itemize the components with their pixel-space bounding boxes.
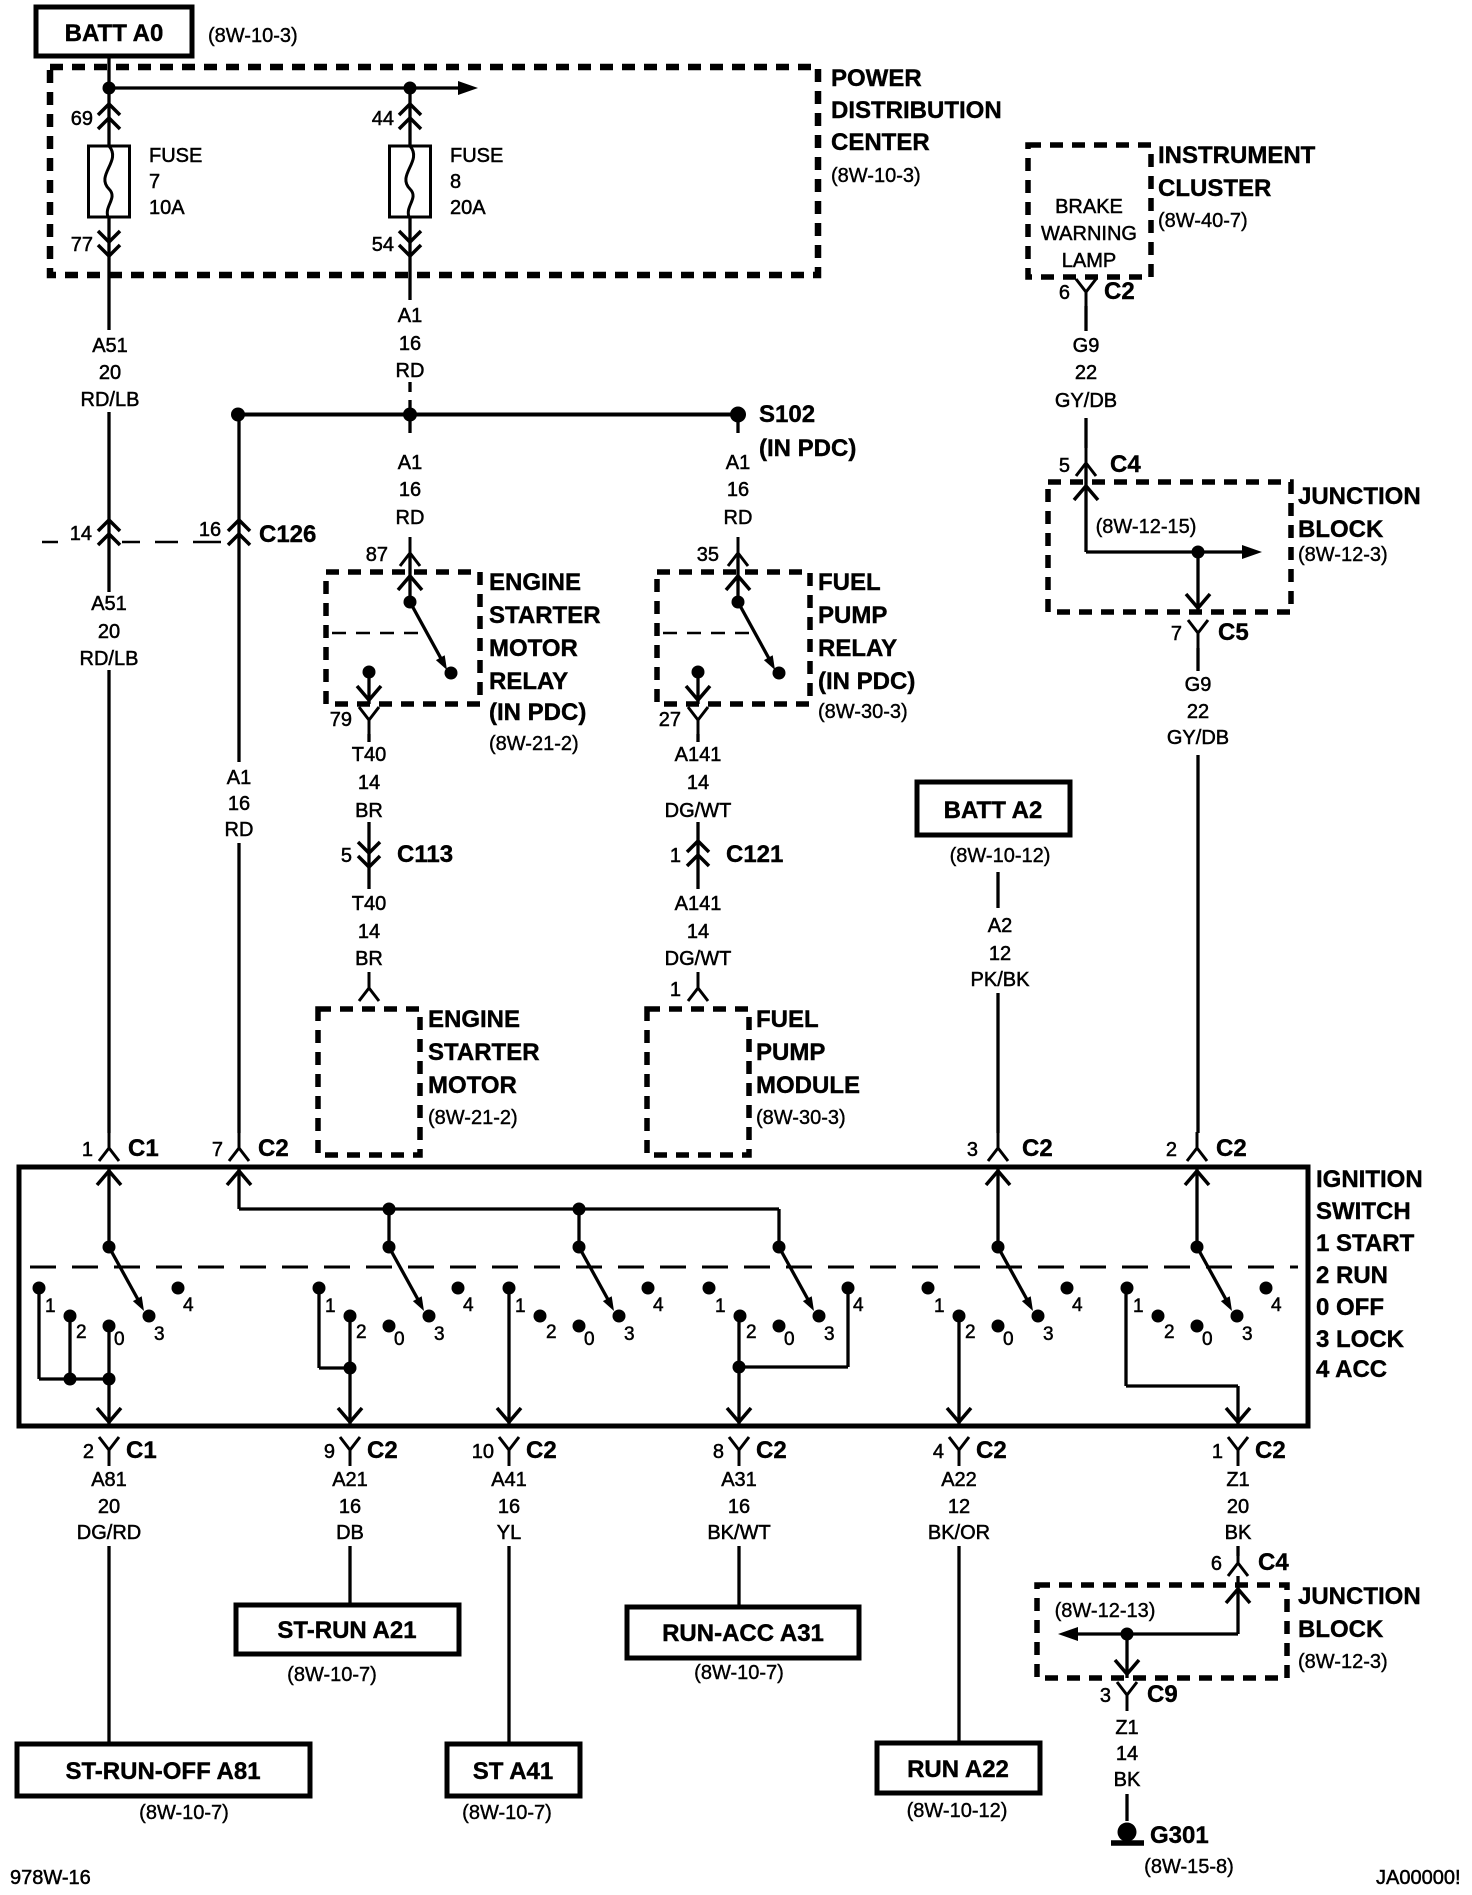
svg-text:BK/WT: BK/WT [707,1522,770,1544]
svg-text:22: 22 [1187,701,1209,723]
junction block lower entry arrow [1226,1589,1250,1603]
svg-text:0 OFF: 0 OFF [1316,1294,1384,1321]
svg-text:22: 22 [1075,362,1097,384]
wire bus drops [387,1209,390,1247]
wire pole 5 output net [957,1316,960,1426]
svg-text:A141: A141 [675,893,722,915]
svg-text:BATT A2: BATT A2 [944,797,1043,824]
svg-text:FUEL: FUEL [818,569,881,596]
svg-text:3: 3 [434,1324,445,1345]
fuel pump relay entry arrow [726,576,750,590]
fuse 7 10A [89,146,130,217]
svg-text:8: 8 [450,171,461,193]
engine starter motor box [318,1009,420,1155]
svg-text:FUEL: FUEL [756,1006,819,1033]
svg-text:C1: C1 [126,1437,157,1464]
svg-text:C4: C4 [1258,1549,1289,1576]
svg-text:3 LOCK: 3 LOCK [1316,1326,1405,1353]
svg-text:10A: 10A [149,197,185,219]
svg-text:POWER: POWER [831,65,922,92]
svg-text:77: 77 [71,234,93,256]
switch pole 1 position contacts [33,1282,46,1295]
node ST-RUN-OFF A81 box [17,1744,310,1796]
svg-text:16: 16 [399,333,421,355]
switch pole 3 position contacts [503,1282,516,1295]
switch pole 4 position contacts [703,1282,716,1295]
svg-text:16: 16 [199,519,221,541]
wire dash below S102 [736,420,739,433]
svg-text:G301: G301 [1150,1822,1209,1849]
wire entry pole 5 [986,1171,1010,1185]
svg-text:16: 16 [399,479,421,501]
svg-text:RUN-ACC A31: RUN-ACC A31 [662,1620,824,1647]
svg-text:C2: C2 [1104,278,1135,305]
wire A1 16 RD from C126 to ignition switch pin 7 C2 [237,414,240,762]
svg-text:BR: BR [355,948,383,970]
wire A22 to RUN [957,1546,960,1743]
wire Z1 to ground [1125,1794,1128,1821]
wire fuel relay coil to pivot [736,553,739,602]
wire T40 14 BR upper [367,734,370,742]
power distribution center box [50,67,818,275]
svg-text:3: 3 [154,1324,165,1345]
svg-text:RUN A22: RUN A22 [907,1756,1009,1783]
svg-text:WARNING: WARNING [1041,223,1137,245]
svg-text:S102: S102 [759,401,815,428]
svg-text:A1: A1 [227,767,251,789]
node fuel relay contact [773,667,786,680]
svg-text:C2: C2 [367,1437,398,1464]
junction block entry arrow [1074,486,1098,500]
wire relay output [367,672,370,704]
svg-text:BLOCK: BLOCK [1298,516,1384,543]
wire PDC internal bus with arrow [109,86,462,89]
wire pole 6 output net [1124,1288,1127,1386]
svg-text:BRAKE: BRAKE [1055,196,1123,218]
svg-text:7: 7 [1171,623,1182,645]
svg-text:FUSE: FUSE [450,145,503,167]
wire Z1 to C4 [1236,1546,1239,1556]
svg-text:4: 4 [1072,1295,1083,1316]
starter relay entry arrow [398,576,422,590]
svg-text:0: 0 [1202,1329,1213,1350]
node relay output contact [363,666,376,679]
svg-text:(8W-10-7): (8W-10-7) [139,1802,229,1824]
svg-text:14: 14 [358,921,380,943]
svg-text:C121: C121 [726,841,783,868]
svg-text:5: 5 [341,845,352,867]
switch pole 6 position contacts [1121,1282,1134,1295]
fuel relay internal dashed line [663,632,752,635]
svg-text:16: 16 [339,1496,361,1518]
svg-text:35: 35 [697,544,719,566]
svg-text:C126: C126 [259,521,316,548]
svg-text:4: 4 [183,1295,194,1316]
svg-text:ST A41: ST A41 [473,1758,553,1785]
svg-text:1: 1 [670,845,681,867]
svg-text:JA00000!: JA00000! [1376,1867,1461,1889]
svg-text:Z1: Z1 [1226,1469,1249,1491]
wire fuel relay output [696,672,699,704]
svg-text:(8W-10-3): (8W-10-3) [208,25,298,47]
svg-text:(8W-12-15): (8W-12-15) [1096,516,1197,538]
switch pole 1 arm [109,1247,141,1305]
svg-text:C4: C4 [1110,451,1141,478]
connector at engine starter motor [359,972,379,1001]
wire A2 to ignition switch pin 3 C2 [996,993,999,1133]
svg-text:3: 3 [1043,1324,1054,1345]
svg-text:T40: T40 [352,744,386,766]
wire pole 3 output net [507,1288,510,1426]
switch pole 4 pivot [773,1241,786,1254]
svg-text:(8W-12-3): (8W-12-3) [1298,1651,1388,1673]
svg-text:12: 12 [989,943,1011,965]
node fuel relay pivot [732,596,745,609]
wire A51 to ignition switch pin 1 C1 [107,670,110,1133]
svg-text:RELAY: RELAY [818,635,897,662]
svg-text:2: 2 [76,1322,87,1343]
svg-text:6: 6 [1059,282,1070,304]
svg-text:20: 20 [99,362,121,384]
svg-text:16: 16 [498,1496,520,1518]
wire entry pole 6 [1185,1171,1209,1185]
svg-text:RD: RD [396,507,425,529]
svg-text:ENGINE: ENGINE [489,569,581,596]
svg-text:(8W-10-12): (8W-10-12) [907,1800,1008,1822]
svg-text:(IN PDC): (IN PDC) [818,668,915,695]
svg-text:(8W-40-7): (8W-40-7) [1158,210,1248,232]
fuel pump module box [647,1009,749,1155]
node junction block tap [1192,546,1205,559]
svg-text:RELAY: RELAY [489,668,568,695]
svg-text:(8W-30-3): (8W-30-3) [756,1107,846,1129]
wire entry pole 2 to bus [227,1171,251,1185]
svg-text:C1: C1 [128,1135,159,1162]
svg-text:1: 1 [515,1296,526,1317]
svg-text:ENGINE: ENGINE [428,1006,520,1033]
svg-text:A141: A141 [675,744,722,766]
svg-text:A41: A41 [491,1469,527,1491]
svg-text:2: 2 [356,1322,367,1343]
svg-text:0: 0 [1003,1329,1014,1350]
fuel relay switch arm [738,602,772,664]
svg-text:1: 1 [670,979,681,1001]
svg-text:14: 14 [358,772,380,794]
svg-text:SWITCH: SWITCH [1316,1198,1411,1225]
ignition switch box [19,1167,1308,1426]
svg-text:(8W-12-13): (8W-12-13) [1055,1600,1156,1622]
svg-text:44: 44 [372,108,394,130]
wire fuse 7 output [107,217,110,330]
svg-text:A21: A21 [332,1469,368,1491]
fuel pump relay box [657,572,810,704]
svg-text:1: 1 [325,1296,336,1317]
node relay contact [445,667,458,680]
svg-text:(8W-10-7): (8W-10-7) [462,1802,552,1824]
svg-text:0: 0 [114,1329,125,1350]
wire ignition internal bus [239,1207,779,1210]
svg-text:ST-RUN A21: ST-RUN A21 [277,1617,416,1644]
svg-text:Z1: Z1 [1115,1717,1138,1739]
wire G9 22 GY/DB lower [1196,648,1199,671]
svg-text:RD: RD [724,507,753,529]
node S102 [730,407,746,423]
svg-text:BATT A0: BATT A0 [65,20,164,47]
svg-text:(8W-12-3): (8W-12-3) [1298,544,1388,566]
wire relay coil to pivot [408,553,411,602]
svg-text:STARTER: STARTER [489,602,601,629]
node fuel relay output contact [692,666,705,679]
svg-text:DG/WT: DG/WT [665,800,732,822]
svg-text:4: 4 [463,1295,474,1316]
svg-text:MOTOR: MOTOR [489,635,578,662]
svg-text:2: 2 [746,1322,757,1343]
node RUN-ACC A31 box [627,1607,859,1658]
svg-text:ST-RUN-OFF A81: ST-RUN-OFF A81 [65,1758,260,1785]
svg-text:16: 16 [728,1496,750,1518]
svg-text:1: 1 [715,1296,726,1317]
svg-text:C2: C2 [1255,1437,1286,1464]
connector C126 dashed tie line [122,541,140,544]
svg-text:7: 7 [149,171,160,193]
svg-text:1: 1 [1133,1296,1144,1317]
wire dash below bus center [408,420,411,433]
svg-text:3: 3 [1100,1685,1111,1707]
node junction at fuse 8 [404,82,417,95]
svg-text:G9: G9 [1185,674,1212,696]
wire into fuse 8 pin 44 [408,88,411,146]
svg-text:2: 2 [965,1322,976,1343]
node bus tap pole 2b [383,1203,396,1216]
svg-text:A51: A51 [91,593,127,615]
svg-text:A81: A81 [91,1469,127,1491]
svg-text:C2: C2 [756,1437,787,1464]
svg-text:C113: C113 [397,841,453,868]
svg-text:4: 4 [653,1295,664,1316]
wire fuse 8 output A1 [408,217,411,300]
switch pole 3 arm [579,1247,611,1305]
svg-text:A1: A1 [398,305,422,327]
svg-text:A31: A31 [721,1469,757,1491]
svg-text:(8W-10-12): (8W-10-12) [950,845,1051,867]
node bus center tap [403,408,417,422]
svg-text:9: 9 [324,1441,335,1463]
node lower junction tap [1121,1628,1134,1641]
svg-text:14: 14 [70,523,92,545]
svg-text:6: 6 [1211,1553,1222,1575]
svg-text:7: 7 [212,1139,223,1161]
svg-text:4: 4 [1271,1295,1282,1316]
wire BATT A0 to PDC node [107,56,110,88]
svg-text:C2: C2 [258,1135,289,1162]
svg-text:0: 0 [784,1329,795,1350]
switch pole 5 arm [998,1247,1030,1305]
svg-text:14: 14 [1116,1743,1138,1765]
svg-text:3: 3 [824,1324,835,1345]
switch pole 1 pivot [103,1241,116,1254]
node bus left end [231,408,245,422]
svg-text:27: 27 [659,709,681,731]
svg-text:0: 0 [584,1329,595,1350]
switch pole 5 position contacts [922,1282,935,1295]
svg-text:(8W-30-3): (8W-30-3) [818,701,908,723]
svg-text:14: 14 [687,921,709,943]
svg-text:A2: A2 [988,915,1012,937]
svg-text:3: 3 [1242,1324,1253,1345]
node bus tap pole 3 [573,1203,586,1216]
svg-text:3: 3 [967,1139,978,1161]
svg-text:RD: RD [396,360,425,382]
svg-text:20: 20 [1227,1496,1249,1518]
svg-text:RD: RD [225,819,254,841]
svg-text:4: 4 [933,1441,944,1463]
svg-text:BR: BR [355,800,383,822]
switch pole 3 pivot [573,1241,586,1254]
svg-text:T40: T40 [352,893,386,915]
svg-text:1: 1 [45,1296,56,1317]
svg-text:FUSE: FUSE [149,145,202,167]
svg-text:0: 0 [394,1329,405,1350]
svg-text:20A: 20A [450,197,486,219]
svg-text:(8W-21-2): (8W-21-2) [489,733,579,755]
wire pole 2 output net [317,1288,320,1368]
svg-text:A22: A22 [941,1469,977,1491]
svg-text:A51: A51 [92,335,128,357]
svg-text:2: 2 [1166,1139,1177,1161]
node junction at fuse 7 [103,82,116,95]
svg-text:(8W-15-8): (8W-15-8) [1144,1856,1234,1878]
svg-text:1 START: 1 START [1316,1230,1415,1257]
svg-text:LAMP: LAMP [1062,250,1116,272]
wire A31 to RUN-ACC [737,1546,740,1607]
wire inside lower junction block [1236,1576,1239,1634]
svg-text:RD/LB: RD/LB [80,648,139,670]
svg-text:PUMP: PUMP [756,1039,825,1066]
svg-text:69: 69 [71,108,93,130]
svg-text:54: 54 [372,234,394,256]
svg-text:10: 10 [472,1441,494,1463]
svg-text:20: 20 [98,1496,120,1518]
svg-text:4 ACC: 4 ACC [1316,1356,1387,1383]
svg-text:1: 1 [82,1139,93,1161]
ignition internal dashed line [30,1266,1298,1269]
svg-text:2 RUN: 2 RUN [1316,1262,1388,1289]
svg-text:A1: A1 [726,452,750,474]
wire A51 from label to C126 [107,412,110,592]
engine starter motor relay box [326,572,480,704]
switch pole 2 position contacts [313,1282,326,1295]
svg-text:STARTER: STARTER [428,1039,540,1066]
svg-text:4: 4 [853,1295,864,1316]
svg-text:GY/DB: GY/DB [1167,727,1229,749]
svg-text:12: 12 [948,1496,970,1518]
svg-text:PK/BK: PK/BK [971,969,1031,991]
svg-text:C2: C2 [976,1437,1007,1464]
svg-text:C5: C5 [1218,619,1249,646]
wire splice bus S102 [238,413,738,417]
svg-text:1: 1 [934,1296,945,1317]
svg-text:BK/OR: BK/OR [928,1522,990,1544]
node ST A41 box [447,1744,580,1796]
svg-text:C9: C9 [1147,1681,1178,1708]
svg-text:14: 14 [687,772,709,794]
wire BATT A2 stub [996,872,999,908]
wire A21 to ST-RUN [348,1546,351,1605]
junction block lower box [1037,1585,1287,1678]
wire G9 22 GY/DB upper [1084,306,1087,331]
svg-text:IGNITION: IGNITION [1316,1166,1423,1193]
svg-text:79: 79 [330,709,352,731]
svg-text:(8W-10-3): (8W-10-3) [831,165,921,187]
svg-text:(8W-21-2): (8W-21-2) [428,1107,518,1129]
svg-text:YL: YL [497,1522,521,1544]
connector C126 tie dash left [42,541,58,544]
svg-text:INSTRUMENT: INSTRUMENT [1158,142,1316,169]
wire A81 to ST-RUN-OFF [107,1546,110,1744]
svg-text:JUNCTION: JUNCTION [1298,1583,1421,1610]
svg-text:DISTRIBUTION: DISTRIBUTION [831,97,1002,124]
wire pole 1 output net [37,1288,40,1379]
svg-text:A1: A1 [398,452,422,474]
wire pole 4 output net [737,1316,740,1426]
svg-text:1: 1 [1212,1441,1223,1463]
svg-text:DG/WT: DG/WT [665,948,732,970]
switch pole 6 pivot [1191,1241,1204,1254]
svg-text:BK: BK [1225,1522,1252,1544]
svg-text:DG/RD: DG/RD [77,1522,141,1544]
svg-text:(8W-10-7): (8W-10-7) [287,1664,377,1686]
ground G301 [1118,1823,1137,1842]
wire junction down to C9 [1125,1634,1128,1678]
svg-text:2: 2 [83,1441,94,1463]
node RUN A22 box [877,1743,1040,1793]
svg-text:16: 16 [228,793,250,815]
svg-text:3: 3 [624,1324,635,1345]
instrument cluster brake warning lamp box [1028,145,1151,277]
svg-text:CENTER: CENTER [831,129,930,156]
svg-text:BLOCK: BLOCK [1298,1616,1384,1643]
svg-text:(IN PDC): (IN PDC) [759,435,856,462]
svg-text:(8W-10-7): (8W-10-7) [694,1662,784,1684]
wire A41 to ST [507,1546,510,1744]
node ST-RUN A21 box [236,1605,459,1654]
switch pole 4 arm [779,1247,811,1305]
switch pole 2 arm [389,1247,421,1305]
svg-text:8: 8 [713,1441,724,1463]
svg-text:(IN PDC): (IN PDC) [489,699,586,726]
switch pole 5 pivot [992,1241,1005,1254]
svg-text:16: 16 [727,479,749,501]
svg-text:CLUSTER: CLUSTER [1158,175,1271,202]
svg-text:MOTOR: MOTOR [428,1072,517,1099]
svg-text:5: 5 [1059,455,1070,477]
svg-text:2: 2 [1164,1322,1175,1343]
fuse 8 20A [390,146,431,217]
svg-text:87: 87 [366,544,388,566]
relay switch arm [410,602,444,664]
wire into fuse 7 pin 69 [107,88,110,146]
wire A141 14 DG/WT upper [696,734,699,742]
svg-text:DB: DB [336,1522,364,1544]
svg-text:JUNCTION: JUNCTION [1298,483,1421,510]
switch pole 6 arm [1197,1247,1229,1305]
junction block upper box [1048,482,1291,612]
svg-text:C2: C2 [1022,1135,1053,1162]
svg-text:PUMP: PUMP [818,602,887,629]
svg-text:978W-16: 978W-16 [10,1867,91,1889]
wire junction block down [1196,552,1199,612]
svg-text:20: 20 [98,621,120,643]
